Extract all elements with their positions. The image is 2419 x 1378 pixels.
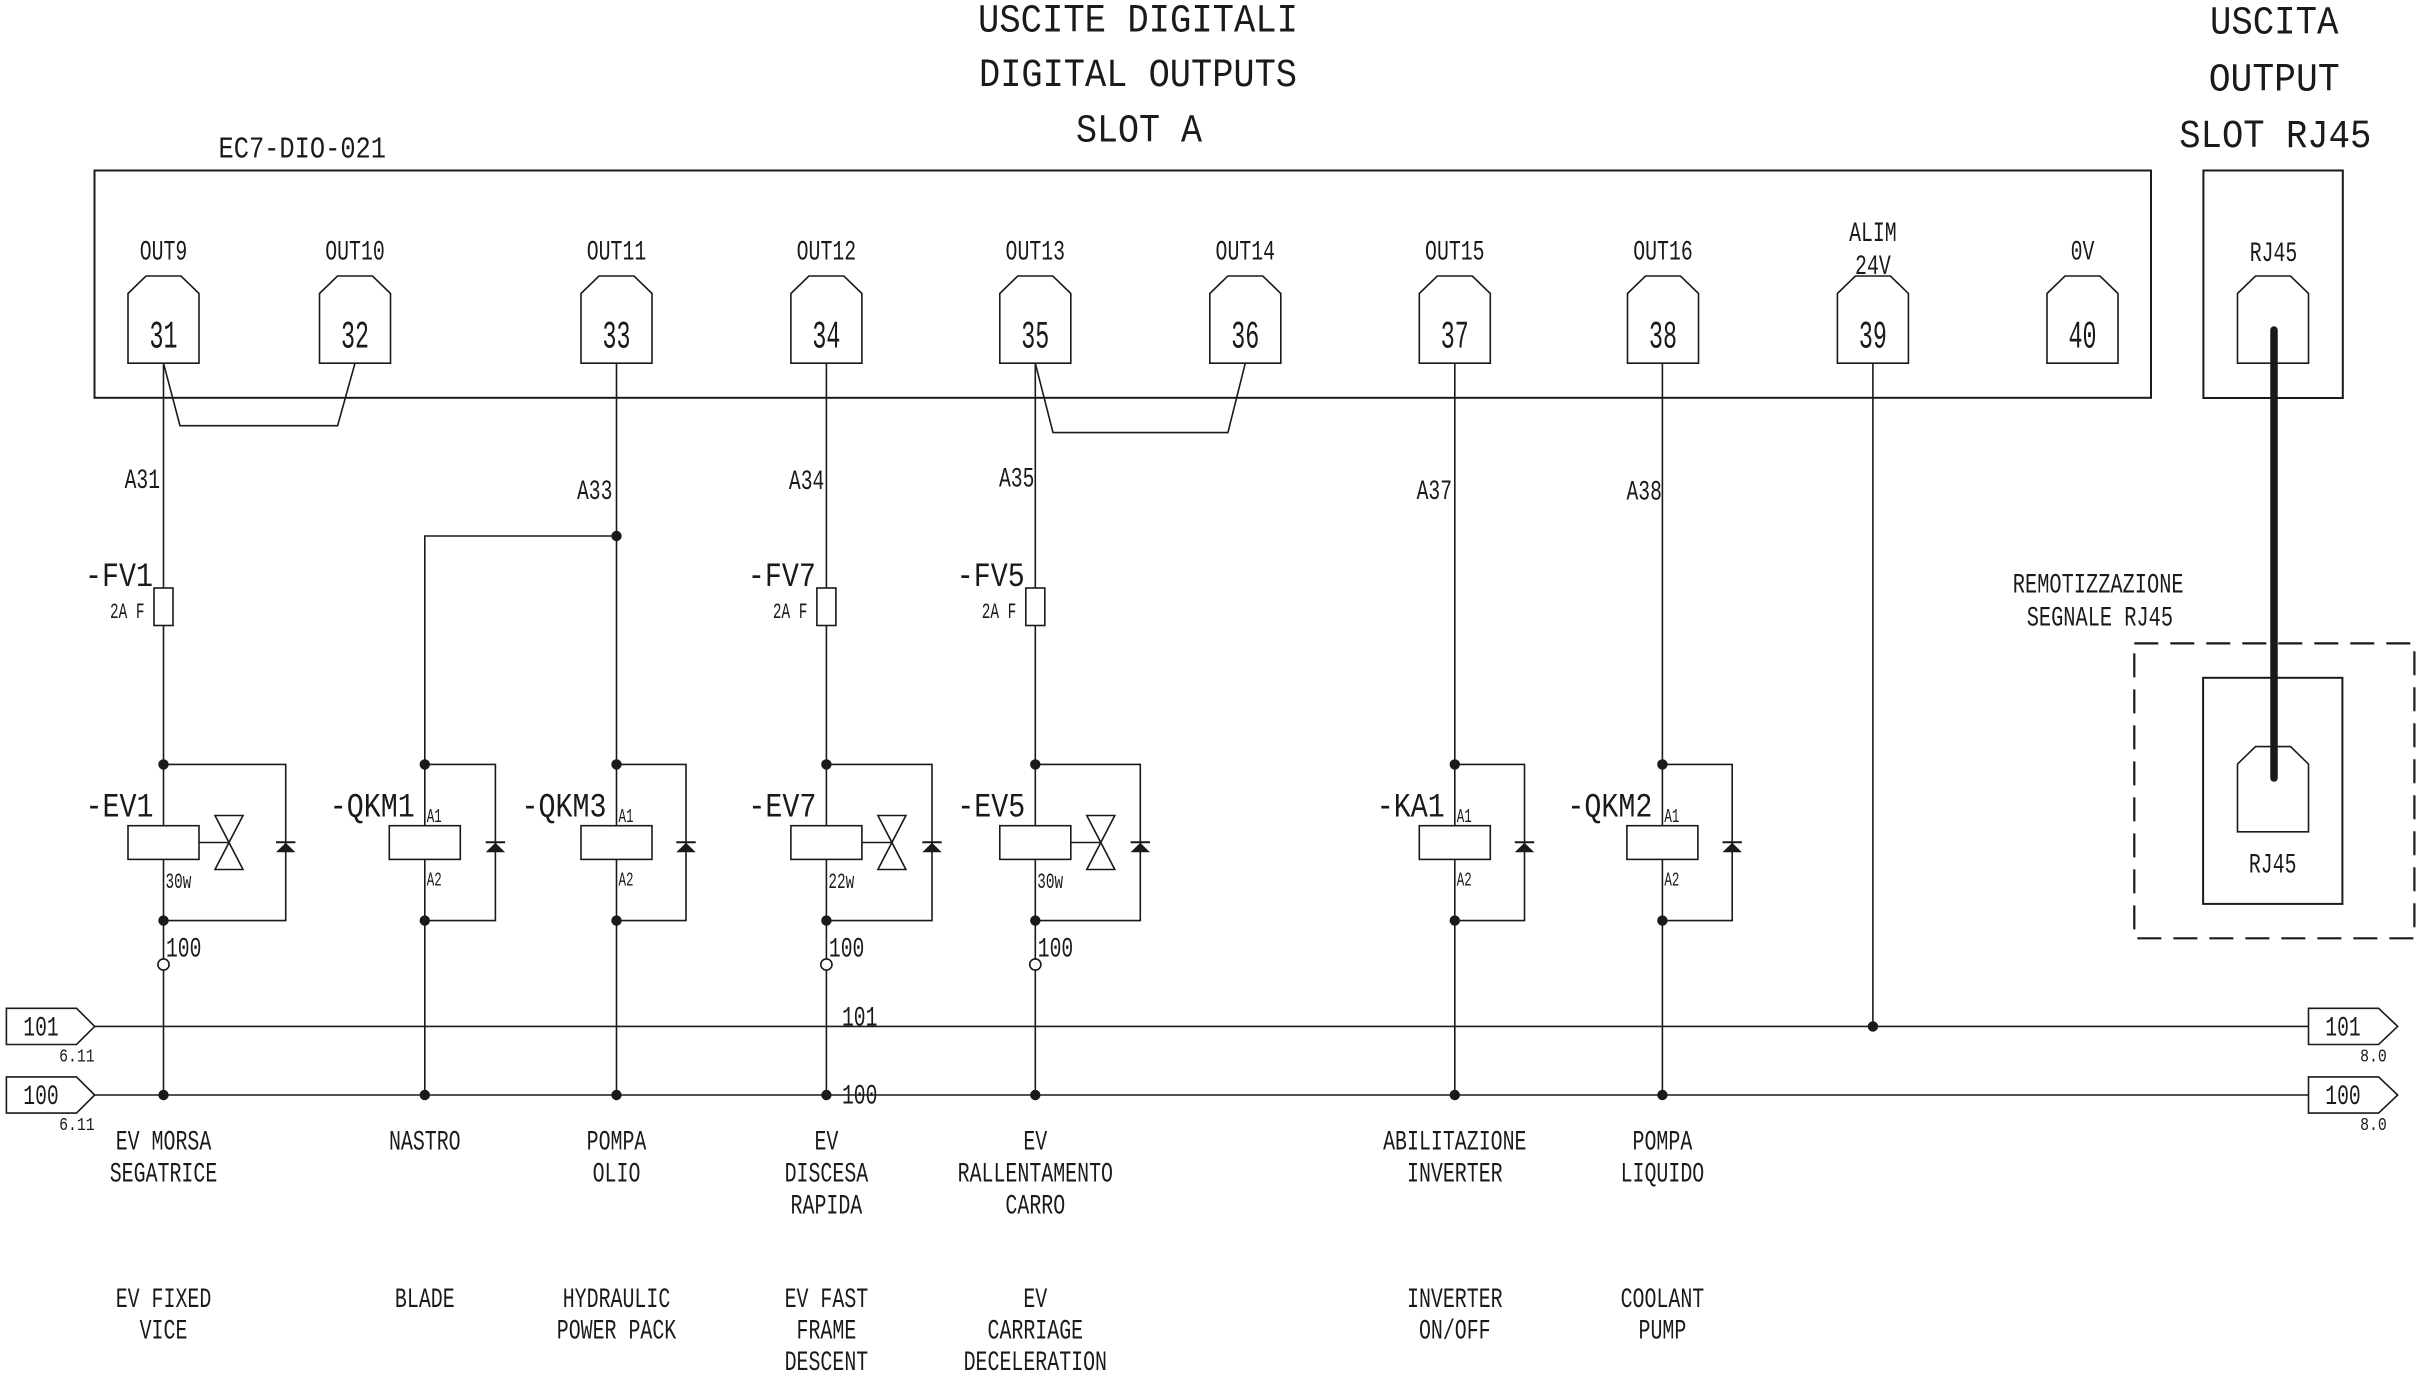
svg-text:VICE: VICE [140, 1317, 188, 1348]
svg-text:RJ45: RJ45 [2250, 239, 2298, 270]
svg-text:FRAME: FRAME [797, 1317, 857, 1348]
junction on wire A33 at branch [611, 531, 621, 541]
svg-text:100: 100 [1038, 935, 1073, 966]
svg-text:101: 101 [842, 1004, 877, 1035]
wire from coil EV1 to node 100 terminal [163, 921, 165, 959]
terminal 37 (OUT15) [1419, 238, 1490, 364]
wire A34 upper segment [825, 363, 827, 588]
svg-text:30w: 30w [166, 870, 192, 895]
junction of coil EV7 wire on bus 100 [821, 1090, 831, 1100]
svg-text:-QKM3: -QKM3 [522, 790, 607, 828]
terminal 40 (0V) [2047, 238, 2118, 364]
junction of coil KA1 wire on bus 100 [1450, 1090, 1460, 1100]
flyback diode branch of EV5 [1035, 764, 1140, 920]
wire A31 lower segment (fuse to coil) [163, 626, 165, 765]
svg-text:-EV7: -EV7 [748, 790, 816, 828]
open terminal circle (node 100) at coil EV5 [1030, 959, 1041, 970]
terminal RJ45 (slot RJ45) [2238, 239, 2309, 363]
terminal 38 (OUT16) [1628, 238, 1699, 364]
svg-text:POWER PACK: POWER PACK [557, 1317, 677, 1348]
svg-text:EV MORSA: EV MORSA [116, 1128, 212, 1159]
valve actuator symbol of EV5 [1071, 816, 1115, 870]
coil KA1 [1377, 764, 1491, 920]
svg-text:2A F: 2A F [110, 600, 145, 625]
junction at bottom of coil KA1 [1450, 915, 1460, 925]
svg-text:35: 35 [1021, 316, 1049, 360]
svg-text:COOLANT: COOLANT [1621, 1285, 1705, 1316]
flyback diode branch of EV7 [826, 764, 932, 920]
junction of coil EV5 wire on bus 100 [1030, 1090, 1040, 1100]
coil EV1 [86, 764, 200, 920]
junction at top of coil QKM2 [1657, 759, 1667, 769]
svg-text:EC7-DIO-021: EC7-DIO-021 [219, 133, 387, 168]
wire from terminal 39 (ALIM 24V) to bus 101 [1872, 363, 1874, 1026]
wire A31 upper segment [163, 363, 165, 588]
svg-text:OUT11: OUT11 [587, 238, 647, 269]
open terminal circle (node 100) at coil EV7 [821, 959, 832, 970]
junction at bottom of coil QKM2 [1657, 915, 1667, 925]
svg-text:ON/OFF: ON/OFF [1419, 1317, 1491, 1348]
off-page connector bus 101 left (to 6.11) [6, 1008, 94, 1067]
svg-text:A37: A37 [1417, 477, 1452, 508]
svg-text:SLOT RJ45: SLOT RJ45 [2179, 115, 2371, 160]
coil EV5 [957, 764, 1071, 920]
svg-text:24V: 24V [1855, 252, 1891, 283]
svg-text:A2: A2 [619, 870, 634, 892]
flyback diode of KA1 [1515, 842, 1534, 852]
coil QKM1 [330, 764, 461, 920]
svg-text:A1: A1 [619, 806, 634, 828]
junction at bottom of coil QKM1 [420, 915, 430, 925]
svg-text:-FV1: -FV1 [85, 559, 153, 597]
RJ45 signal cable (thick) [2270, 330, 2278, 778]
svg-text:EV FIXED: EV FIXED [116, 1285, 212, 1316]
svg-text:34: 34 [812, 316, 840, 360]
svg-text:2A F: 2A F [773, 600, 808, 625]
wire from coil EV5 to node 100 terminal [1034, 921, 1036, 959]
svg-text:A2: A2 [427, 870, 442, 892]
svg-text:32: 32 [341, 316, 369, 360]
svg-text:A2: A2 [1664, 870, 1679, 892]
svg-text:POMPA: POMPA [587, 1128, 647, 1159]
svg-text:USCITE DIGITALI: USCITE DIGITALI [978, 0, 1298, 44]
wire A33 from terminal 33 to coil QKM3 [616, 363, 618, 764]
svg-text:EV FAST: EV FAST [785, 1285, 869, 1316]
terminal 35 (OUT13) [1000, 238, 1071, 364]
flyback diode of QKM3 [676, 842, 695, 852]
junction of coil QKM2 wire on bus 100 [1657, 1090, 1667, 1100]
svg-text:RJ45: RJ45 [2249, 851, 2297, 882]
svg-text:33: 33 [603, 316, 631, 360]
svg-text:EV: EV [1023, 1285, 1047, 1316]
svg-text:37: 37 [1441, 316, 1469, 360]
svg-text:36: 36 [1231, 316, 1259, 360]
off-page connector bus 101 right (to 8.0) [2309, 1008, 2398, 1067]
svg-text:A31: A31 [125, 466, 160, 497]
valve actuator symbol of EV7 [862, 816, 906, 870]
wire link terminal 31 to terminal 32 [164, 363, 356, 426]
svg-text:EV: EV [814, 1128, 838, 1159]
svg-text:A33: A33 [577, 477, 612, 508]
junction at top of coil QKM3 [611, 759, 621, 769]
wire from node 100 terminal to bus 100 [825, 970, 827, 1095]
flyback diode of QKM1 [486, 842, 505, 852]
svg-text:OUT13: OUT13 [1006, 238, 1066, 269]
svg-text:0V: 0V [2071, 238, 2095, 269]
junction of coil QKM1 wire on bus 100 [420, 1090, 430, 1100]
wire A35 upper segment [1034, 363, 1036, 588]
bus wire 101 [95, 1025, 2309, 1027]
svg-text:REMOTIZZAZIONE: REMOTIZZAZIONE [2013, 571, 2184, 602]
svg-text:SLOT A: SLOT A [1076, 109, 1202, 154]
terminal 32 (OUT10) [320, 238, 391, 364]
svg-text:-EV1: -EV1 [86, 790, 154, 828]
svg-text:-FV7: -FV7 [748, 559, 816, 597]
svg-text:BLADE: BLADE [395, 1285, 455, 1316]
svg-text:ABILITAZIONE: ABILITAZIONE [1383, 1128, 1526, 1159]
wire from coil QKM2 to bus 100 [1661, 921, 1663, 1095]
svg-text:CARRO: CARRO [1005, 1192, 1065, 1223]
fuse FV5 2A F [957, 559, 1045, 626]
junction at bottom of coil EV5 [1030, 915, 1040, 925]
svg-text:2A F: 2A F [982, 600, 1017, 625]
flyback diode branch of QKM3 [617, 764, 687, 920]
svg-text:40: 40 [2069, 316, 2097, 360]
svg-text:SEGNALE RJ45: SEGNALE RJ45 [2027, 603, 2173, 634]
svg-text:OUT9: OUT9 [140, 238, 188, 269]
flyback diode of QKM2 [1723, 842, 1742, 852]
function label column QKM3: POMPA OLIO / HYDRAULIC POWER PACK [557, 1128, 677, 1348]
svg-text:OUTPUT: OUTPUT [2209, 59, 2340, 104]
flyback diode branch of KA1 [1455, 764, 1525, 920]
wire A37 from terminal 37 to coil KA1 [1454, 363, 1456, 764]
function label column EV5: EV RALLENTAMENTO CARRO / EV CARRIAGE DECELERATION [958, 1128, 1113, 1378]
junction at top of coil EV5 [1030, 759, 1040, 769]
svg-text:A2: A2 [1457, 870, 1472, 892]
svg-text:OUT14: OUT14 [1216, 238, 1276, 269]
svg-text:100: 100 [842, 1082, 877, 1113]
off-page connector bus 100 left (to 6.11) [6, 1077, 94, 1136]
junction at top of coil QKM1 [420, 759, 430, 769]
dashed enclosure of remote RJ45 [2134, 643, 2414, 938]
junction of coil QKM3 wire on bus 100 [611, 1090, 621, 1100]
svg-text:OLIO: OLIO [593, 1160, 641, 1191]
svg-text:ALIM: ALIM [1849, 219, 1897, 250]
svg-text:DECELERATION: DECELERATION [964, 1348, 1107, 1373]
svg-text:-EV5: -EV5 [957, 790, 1025, 828]
function label column QKM1: NASTRO / BLADE [389, 1128, 461, 1317]
svg-text:DIGITAL OUTPUTS: DIGITAL OUTPUTS [979, 54, 1297, 99]
wire from coil QKM1 to bus 100 [424, 921, 426, 1095]
terminal 34 (OUT12) [791, 238, 862, 364]
flyback diode branch of QKM2 [1662, 764, 1732, 920]
svg-text:USCITA: USCITA [2210, 1, 2339, 46]
svg-text:30w: 30w [1037, 870, 1063, 895]
svg-text:31: 31 [150, 316, 178, 360]
flyback diode of EV1 [276, 842, 295, 852]
coil EV7 [748, 764, 862, 920]
svg-text:INVERTER: INVERTER [1407, 1285, 1503, 1316]
svg-text:A38: A38 [1627, 477, 1662, 508]
svg-text:DESCENT: DESCENT [785, 1348, 869, 1373]
svg-text:38: 38 [1649, 316, 1677, 360]
svg-text:RAPIDA: RAPIDA [791, 1192, 863, 1223]
svg-text:101: 101 [2325, 1014, 2360, 1045]
wire A35 lower segment (fuse to coil) [1034, 626, 1036, 765]
svg-text:PUMP: PUMP [1639, 1317, 1687, 1348]
function label column EV7: EV DISCESA RAPIDA / EV FAST FRAME DESCENT [785, 1128, 869, 1378]
junction of coil EV1 wire on bus 100 [158, 1090, 168, 1100]
junction at bottom of coil QKM3 [611, 915, 621, 925]
svg-text:39: 39 [1859, 316, 1887, 360]
RJ45 slot box outline [2203, 171, 2342, 399]
svg-text:DISCESA: DISCESA [785, 1160, 869, 1191]
svg-text:OUT10: OUT10 [325, 238, 385, 269]
svg-text:6.11: 6.11 [59, 1116, 95, 1136]
off-page connector bus 100 right (to 8.0) [2309, 1077, 2398, 1136]
wire from coil EV7 to node 100 terminal [825, 921, 827, 959]
open terminal circle (node 100) at coil EV1 [158, 959, 169, 970]
svg-text:LIQUIDO: LIQUIDO [1621, 1160, 1705, 1191]
junction at top of coil KA1 [1450, 759, 1460, 769]
remote RJ45 terminal [2238, 747, 2309, 882]
svg-text:22w: 22w [828, 870, 854, 895]
svg-text:100: 100 [166, 935, 201, 966]
svg-text:SEGATRICE: SEGATRICE [110, 1160, 218, 1191]
flyback diode branch of EV1 [164, 764, 286, 920]
svg-text:6.11: 6.11 [59, 1047, 95, 1067]
svg-text:A1: A1 [1457, 806, 1472, 828]
wire from node 100 terminal to bus 100 [1034, 970, 1036, 1095]
wire A34 lower segment (fuse to coil) [825, 626, 827, 765]
function label column EV1: EV MORSA SEGATRICE / EV FIXED VICE [110, 1128, 218, 1348]
svg-text:100: 100 [829, 935, 864, 966]
junction at bottom of coil EV1 [158, 915, 168, 925]
junction at top of coil EV1 [158, 759, 168, 769]
svg-text:CARRIAGE: CARRIAGE [988, 1317, 1084, 1348]
terminal 33 (OUT11) [581, 238, 652, 364]
svg-text:A1: A1 [427, 806, 442, 828]
wire branch from node A33 to coil QKM1 [425, 536, 617, 764]
svg-text:8.0: 8.0 [2360, 1047, 2387, 1067]
svg-text:-QKM2: -QKM2 [1567, 790, 1652, 828]
flyback diode of EV7 [922, 842, 941, 852]
wire from coil QKM3 to bus 100 [616, 921, 618, 1095]
valve actuator symbol of EV1 [199, 816, 243, 870]
svg-text:101: 101 [23, 1014, 58, 1045]
svg-text:A34: A34 [789, 467, 824, 498]
svg-text:INVERTER: INVERTER [1407, 1160, 1503, 1191]
wire A38 from terminal 38 to coil QKM2 [1661, 363, 1663, 764]
junction of 24V wire on bus 101 [1868, 1021, 1878, 1031]
svg-text:-QKM1: -QKM1 [330, 790, 415, 828]
svg-text:HYDRAULIC: HYDRAULIC [563, 1285, 671, 1316]
terminal 36 (OUT14) [1210, 238, 1281, 364]
coil QKM2 [1567, 764, 1698, 920]
terminal 39 (ALIM 24V) [1837, 219, 1908, 363]
svg-text:A1: A1 [1664, 806, 1679, 828]
junction at top of coil EV7 [821, 759, 831, 769]
svg-text:EV: EV [1023, 1128, 1047, 1159]
remote RJ45 box outline [2203, 678, 2342, 904]
svg-text:100: 100 [23, 1082, 58, 1113]
svg-text:OUT16: OUT16 [1633, 238, 1693, 269]
svg-text:8.0: 8.0 [2360, 1116, 2387, 1136]
svg-text:OUT12: OUT12 [797, 238, 857, 269]
fuse FV7 2A F [748, 559, 836, 626]
flyback diode of EV5 [1131, 842, 1150, 852]
svg-text:POMPA: POMPA [1633, 1128, 1693, 1159]
bus wire 100 [95, 1094, 2309, 1096]
svg-text:RALLENTAMENTO: RALLENTAMENTO [958, 1160, 1113, 1191]
svg-text:A35: A35 [999, 465, 1034, 496]
coil QKM3 [522, 764, 653, 920]
svg-text:NASTRO: NASTRO [389, 1128, 461, 1159]
function label column QKM2: POMPA LIQUIDO / COOLANT PUMP [1621, 1128, 1705, 1348]
svg-text:100: 100 [2325, 1082, 2360, 1113]
svg-text:-KA1: -KA1 [1377, 790, 1445, 828]
svg-text:OUT15: OUT15 [1425, 238, 1485, 269]
wire from node 100 terminal to bus 100 [163, 970, 165, 1095]
function label column KA1: ABILITAZIONE INVERTER / INVERTER ON-OFF [1383, 1128, 1526, 1348]
terminal 31 (OUT9) [128, 238, 199, 364]
junction at bottom of coil EV7 [821, 915, 831, 925]
wire from coil KA1 to bus 100 [1454, 921, 1456, 1095]
module EC7-DIO-021 outline [95, 171, 2152, 398]
wire link terminal 35 to terminal 36 [1035, 363, 1245, 432]
fuse FV1 2A F [85, 559, 173, 626]
flyback diode branch of QKM1 [425, 764, 496, 920]
svg-text:-FV5: -FV5 [957, 559, 1025, 597]
